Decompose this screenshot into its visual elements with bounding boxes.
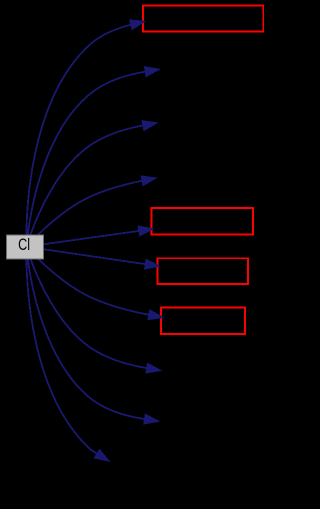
edge Cl->N10 bbox=[26, 259, 97, 454]
arrowhead Cl->N9 bbox=[144, 414, 159, 424]
edge Cl->N1 bbox=[26, 25, 130, 235]
edge Cl->N8 bbox=[31, 259, 147, 368]
node 7 (red box) bbox=[158, 258, 249, 284]
arrowhead Cl->N10 bbox=[94, 450, 109, 462]
edge Cl->N9 bbox=[28, 259, 145, 419]
arrowhead Cl->N8 bbox=[146, 363, 161, 373]
node 1 (red box, top) bbox=[143, 5, 263, 31]
node 6 (red box) bbox=[152, 208, 254, 234]
node Cl (current node, grey) bbox=[7, 235, 44, 259]
edge Cl->N3 bbox=[31, 126, 144, 235]
arrowhead Cl->N2 bbox=[145, 67, 160, 77]
edge Cl->N7 bbox=[38, 259, 149, 315]
arrowhead Cl->N3 bbox=[142, 121, 157, 131]
edge Cl->N4 bbox=[38, 181, 142, 235]
arrowhead Cl->N4 bbox=[141, 176, 156, 186]
edge Cl->N6 bbox=[44, 249, 145, 264]
node 8 (red box) bbox=[161, 308, 245, 335]
svg-text:Cl: Cl bbox=[18, 236, 30, 254]
arrowhead Cl->N1 bbox=[130, 20, 145, 30]
arrowhead Cl->N5 bbox=[138, 226, 153, 236]
edge Cl->N2 bbox=[28, 72, 146, 235]
arrowhead Cl->N7 bbox=[148, 310, 163, 320]
arrowhead Cl->N6 bbox=[145, 259, 160, 269]
edge Cl->N5 bbox=[44, 231, 139, 244]
